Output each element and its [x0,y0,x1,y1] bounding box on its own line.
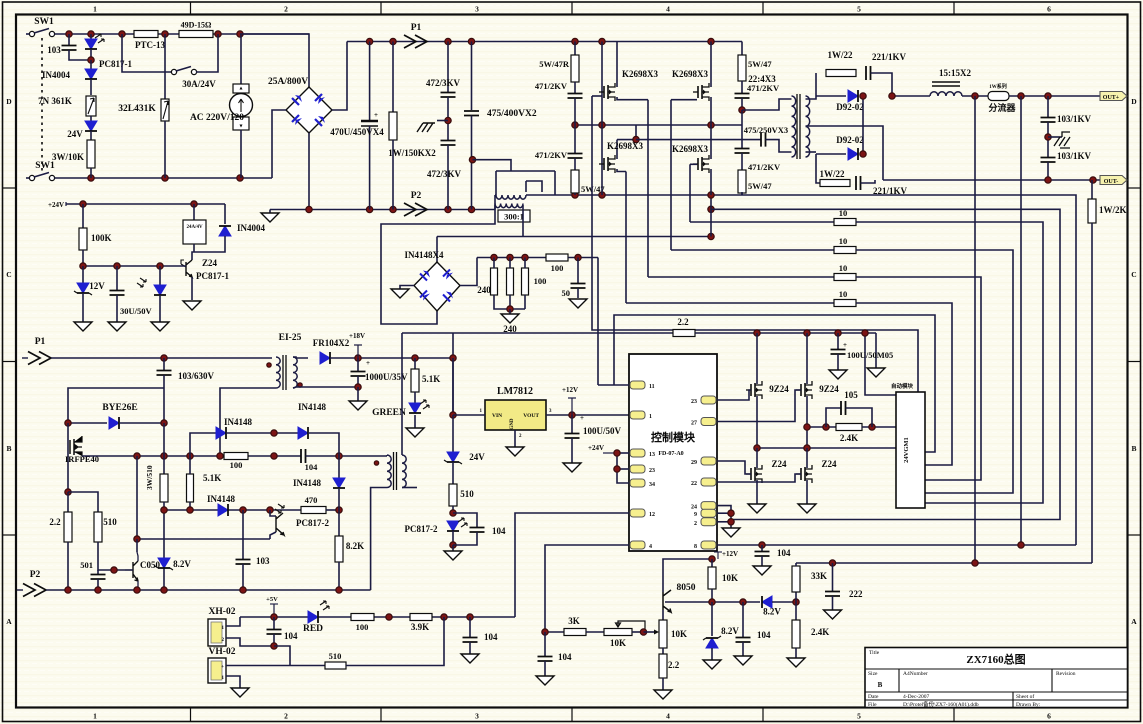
wire cap to VH row [274,646,290,666]
svg-text:8.2K: 8.2K [346,541,364,551]
wire mid rail spur [617,125,636,140]
svg-text:100: 100 [356,622,369,632]
svg-text:Revision: Revision [1056,671,1076,677]
resistor 5.1K chopper [187,474,194,502]
capacitor 471/2KV snubber upper-right [741,81,743,93]
capacitor 471/2KV snubber lower-right [741,110,743,148]
wire 18V to LM7812 [452,358,454,415]
capacitor 104 series row456 [301,449,306,463]
svg-text:2.4K: 2.4K [840,433,858,443]
capacitor 103/630V [163,358,165,370]
svg-text:221/1KV: 221/1KV [872,52,907,62]
resistor 10 B [671,249,834,251]
svg-text:100: 100 [551,263,564,273]
svg-text:1: 1 [93,5,97,14]
wire OUT+ rail to terminal [1009,95,1100,97]
svg-text:自动模块: 自动模块 [891,382,914,390]
wire totem output row [757,447,896,449]
svg-text:OUT-: OUT- [1104,179,1118,185]
svg-text:2: 2 [694,521,697,527]
resistor 510 feedback [290,665,325,667]
zone tick marks top [190,2,192,15]
svg-text:File: File [868,702,877,708]
svg-text:Sheet of: Sheet of [1016,693,1034,700]
svg-text:510: 510 [460,489,474,499]
relay contact 30A/24V [122,34,171,72]
switch SW1 lower [29,175,34,180]
resistor 3W/510 [163,423,165,474]
wire gate bus D [625,172,627,304]
ground 222 cap [824,610,842,619]
wire feedback loop G [711,209,1060,519]
svg-text:IN4148X4: IN4148X4 [404,250,444,260]
capacitor 104 on LED row [469,617,471,637]
wire module pin8 row [717,544,1076,546]
transistor Z24 second [806,448,808,468]
svg-text:104: 104 [492,526,506,536]
resistor 1W/22 bottom snubber [816,154,820,183]
wire CT secondary right lead [522,205,524,237]
ground gate bus end [875,333,877,368]
svg-text:12V: 12V [89,281,105,291]
wire VH-02 pin2 [226,676,240,688]
svg-text:9: 9 [694,512,697,518]
svg-text:LM7812: LM7812 [497,386,533,397]
svg-text:D:\Protel备份\ZX7-160(A01).ddb: D:\Protel备份\ZX7-160(A01).ddb [903,700,979,708]
pulse transformer driver [387,455,391,488]
svg-text:470: 470 [305,495,318,505]
svg-text:Z24: Z24 [771,459,787,469]
ground 100U cap [563,463,581,472]
svg-text:D: D [1131,97,1137,106]
svg-text:2: 2 [284,5,288,14]
svg-text:IN4148: IN4148 [298,402,327,412]
ground 12V zener [74,322,92,331]
potentiometer 10K [604,629,632,636]
wire bridge left to AC bottom [272,110,286,178]
wire module pin23 to gate [717,390,751,400]
svg-text:104: 104 [558,652,572,662]
svg-text:24V: 24V [67,129,83,139]
wire 8050 emitter chain [662,610,664,620]
resistor 10K emitter [659,620,667,648]
svg-text:12: 12 [649,512,655,518]
resistor 10 A [690,221,834,223]
svg-text:P2: P2 [30,570,41,580]
svg-text:分流器: 分流器 [988,102,1016,113]
wire Q4 gate feed [690,163,697,165]
ground 104 LED row [461,654,479,663]
node 475 cap branch [469,157,475,163]
current transformer 300:1 secondary winding [495,204,523,208]
transistor 8050 [663,590,671,612]
svg-text:10: 10 [839,208,848,218]
diode IN4148 vertical [338,456,340,478]
svg-text:1: 1 [649,414,652,420]
svg-text:RED: RED [303,624,323,634]
resistor 100 LED [351,614,374,621]
capacitor 104 connector [273,617,275,629]
resistor 5W/47 snubber bottom-left [574,158,576,170]
wire 1W/2K to divider [1091,223,1093,563]
svg-text:A4Number: A4Number [903,671,928,677]
ground LM7812 [514,430,516,447]
svg-text:5.1K: 5.1K [203,473,221,483]
svg-text:Date: Date [868,694,879,700]
svg-text:24: 24 [691,505,697,511]
wire Q2 gate feed [671,99,697,101]
svg-text:PC817-2: PC817-2 [296,518,329,528]
wire CT rectifier bus [437,236,711,238]
svg-text:IN4004: IN4004 [42,70,71,80]
wire pot to emitter resistor [644,631,656,633]
svg-text:XH-02: XH-02 [209,607,236,617]
svg-text:1W/22: 1W/22 [819,169,845,179]
capacitor 475/400VX2 [471,42,473,111]
svg-text:30U/50V: 30U/50V [120,306,153,316]
svg-text:Size: Size [868,671,878,677]
resistor 5W/47 snubber top-right [741,42,743,56]
wire bridge right to DC+ rail [332,42,347,111]
svg-text:2.2: 2.2 [49,517,61,527]
wire divider top row [796,562,1092,564]
svg-text:Drawn By:: Drawn By: [1016,702,1041,708]
ground 8050 emitter [654,690,672,699]
wire H-bridge bottom rail right [741,192,743,195]
svg-text:471/2KV: 471/2KV [535,81,568,91]
terminal OUT+ [1100,92,1127,101]
resistor 2.4K drive [807,426,836,428]
wire gate bus F [592,95,602,97]
wire OUT+ rail [892,95,930,97]
transistor IRFPE40 [67,423,69,492]
current transformer 300:1 secondary loop [473,160,512,171]
earth at 472 caps midpoint [437,120,448,122]
node top rail junctions [66,31,72,37]
capacitor 103 line filter [68,34,70,45]
diode IN4148 row4 [218,504,228,516]
wire LM7812 input [453,414,485,416]
resistor 49D-15 [179,31,213,38]
svg-text:10K: 10K [722,573,738,583]
transistor PC817-1 output with zener Z24 [192,252,194,260]
ground VH-02 [231,688,249,697]
title block [865,648,1128,708]
diode IN4004 flyback [224,204,226,224]
capacitor 103 feedback [242,510,244,559]
ground 104 pot [536,676,554,685]
wire DC- jog to H-bridge rail [494,195,496,210]
resistor 5W/47R snubber top-left [574,42,576,56]
svg-text:471/2KV: 471/2KV [748,162,781,172]
ground divider [787,658,805,667]
svg-text:5W/47: 5W/47 [748,59,772,69]
node H-bridge rails [572,38,578,44]
ground 104 comparator [734,656,752,665]
ground 100U 50M05 [829,370,847,379]
svg-text:PC817-1: PC817-1 [99,59,132,69]
ground CT filter [569,299,587,308]
wire driver secondary top to 2.2 bus [401,333,403,455]
svg-text:10K: 10K [610,638,626,648]
diode 8.2V signal [762,596,772,608]
svg-text:K2698X3: K2698X3 [622,69,659,79]
svg-text:K2698X3: K2698X3 [672,144,709,154]
svg-text:IN4148: IN4148 [293,478,322,488]
svg-text:100U/50M05: 100U/50M05 [847,350,893,360]
svg-text:30A/24V: 30A/24V [182,79,216,89]
svg-text:5.1K: 5.1K [422,374,440,384]
wire sense E from module pin 11 [614,315,935,452]
optocoupler PC817-1 sense LED [159,266,161,286]
svg-text:PTC-13: PTC-13 [135,40,165,50]
svg-text:29: 29 [691,460,697,466]
svg-text:104: 104 [484,632,498,642]
capacitor 104 on pin8 row [761,545,763,551]
svg-text:B: B [1131,444,1136,453]
zener diode 24V [90,116,92,121]
svg-text:10K: 10K [671,629,687,639]
capacitor 222 [832,563,834,591]
resistor 8.2K [338,510,340,536]
wire rectifier cathode bus [862,96,863,154]
svg-text:8: 8 [694,544,697,550]
resistor 1W/150KX2 [392,42,394,113]
wire opto emitter row [137,538,270,540]
resistor 2.2 emitter [662,648,664,654]
IC control module [629,354,717,551]
wire 103 cap tap [68,388,164,423]
svg-text:P1: P1 [411,23,422,33]
resistor 1W/22 top snubber [826,70,856,77]
svg-text:6: 6 [1047,5,1051,14]
svg-text:5W/47R: 5W/47R [539,59,570,69]
capacitor 1000U/35V [357,358,359,371]
capacitor 103/1KV upper [1047,96,1049,117]
ground resistor network [509,309,511,314]
wire module pin22 to gate [717,474,801,482]
varistor 32L431K [164,34,166,99]
resistor 100 CT filter [546,254,568,261]
svg-text:240: 240 [477,285,491,295]
ground 8.2V zener [703,660,721,669]
wire module pin27 to gate [717,390,801,422]
wire P2 rail bottom [17,589,23,591]
svg-text:3: 3 [475,5,479,14]
svg-text:IN4004: IN4004 [237,223,266,233]
svg-text:104: 104 [305,462,319,472]
svg-text:300:1: 300:1 [504,212,524,222]
svg-text:+: + [843,341,847,349]
svg-text:501: 501 [80,560,93,570]
wire secondary center tap to OUT- rail [806,126,884,180]
svg-text:7N 361K: 7N 361K [38,96,72,106]
svg-text:GND: GND [510,418,515,430]
wire gate supply to power module [865,333,896,395]
resistor 5W/47 snubber bottom-right [741,153,743,170]
resistor PTC-13 [134,31,158,38]
svg-text:103/1KV: 103/1KV [1057,114,1092,124]
svg-text:32L431K: 32L431K [118,104,156,114]
svg-text:K2698X3: K2698X3 [607,141,644,151]
svg-text:34: 34 [649,482,655,488]
wire secondary top lead [806,73,817,99]
resistor 2.2 [673,330,695,337]
wire gate bus A [689,164,691,222]
mechanical link dotted [41,38,43,174]
capacitor 104 pot [544,632,546,656]
wire pot row [545,631,564,633]
capacitor 100U/50M05 [837,333,839,349]
diode IN4004 [90,60,92,69]
wire XH-02 pin2 [226,638,274,646]
svg-text:4: 4 [666,5,670,14]
svg-text:5W/47: 5W/47 [748,181,772,191]
ground GREEN LED [406,428,424,437]
svg-text:100: 100 [534,276,547,286]
svg-text:D92-02: D92-02 [836,135,864,145]
svg-text:P2: P2 [411,191,422,201]
capacitor 103/1KV lower [1041,158,1056,163]
svg-text:103/1KV: 103/1KV [1057,151,1092,161]
current transformer 300:1 primary winding [496,195,526,199]
inductor 15:15X2 [930,92,962,96]
svg-text:+: + [580,414,584,422]
svg-text:49D-15Ω: 49D-15Ω [181,21,212,30]
wire row 510 [164,509,301,511]
wire +24V to pins 13 23 34 [617,452,629,454]
svg-text:+18V: +18V [349,332,365,340]
svg-text:510: 510 [329,651,342,661]
wire comparator row [665,601,760,603]
svg-text:+: + [366,359,370,367]
wire module pin29 to gate [717,461,751,474]
svg-text:+12V: +12V [722,550,738,558]
ground module pins [722,528,740,537]
wire module pin4 down [545,545,629,632]
wire 2.2 gate drive bus [402,332,673,334]
resistor 3.9K [410,614,432,621]
svg-text:FD-07-A0: FD-07-A0 [658,451,683,457]
svg-text:10: 10 [839,263,848,273]
svg-text:控制模块: 控制模块 [651,430,696,444]
svg-text:11: 11 [649,384,655,390]
wire bridge bottom to DC- rail [308,133,310,210]
wire XH-02 pin1 [226,617,240,626]
module pins left [630,381,645,389]
svg-text:C050: C050 [140,560,160,570]
zener diode 24V aux [452,415,454,452]
zone tick marks right [1128,187,1141,189]
svg-text:GREEN: GREEN [372,408,406,418]
wire gate bus B [670,100,672,250]
wire DC+ top rail [347,41,742,43]
svg-text:471/2KV: 471/2KV [535,150,568,160]
svg-text:+: + [374,111,378,119]
svg-text:3K: 3K [568,616,580,626]
svg-text:6: 6 [1047,712,1051,721]
regulator LM7812 [485,400,546,430]
svg-text:103: 103 [47,45,61,55]
wire 8050 collector [663,559,712,592]
svg-text:33K: 33K [811,571,827,581]
capacitor 30U/50V [116,266,118,290]
svg-text:A: A [6,617,12,626]
svg-text:VOUT: VOUT [523,413,539,419]
svg-text:50: 50 [562,288,571,298]
transistor 9Z24 second [806,333,808,384]
resistor 10 D [626,302,834,304]
capacitor 104 opto [453,513,477,527]
zone tick marks left [3,187,17,189]
resistor 100 gate [224,453,248,460]
earth output filter [1048,136,1062,138]
resistor 510 opto drive [452,462,454,484]
wire EI-25 secondary top [293,357,308,358]
svg-text:ZX7160总图: ZX7160总图 [966,652,1025,666]
svg-text:105: 105 [844,390,858,400]
wire H-bridge mid rail [575,124,742,126]
node DC rail junctions [366,38,372,44]
svg-text:D: D [6,97,12,106]
svg-text:Z24: Z24 [202,258,218,268]
transistor K2698X3 Q1 [604,85,608,99]
capacitor 472/3KV lower [441,141,456,146]
resistor network 240 x3 [477,257,546,259]
diode FR104X2 [320,352,330,364]
transistor K2698X3 Q2 [698,85,702,99]
svg-text:5: 5 [857,712,861,721]
svg-text:103/630V: 103/630V [178,371,215,381]
svg-text:B: B [878,681,883,689]
svg-text:510: 510 [103,517,117,527]
svg-text:1W/2K: 1W/2K [1099,205,1127,215]
svg-text:23: 23 [649,468,655,474]
svg-text:A: A [1131,617,1137,626]
svg-text:104: 104 [757,630,771,640]
wire rectified 18V [330,357,453,359]
resistor 470 [301,507,326,514]
svg-text:471/2KV: 471/2KV [747,83,780,93]
wire OUT+ sense [974,96,976,563]
LED RED [308,611,318,623]
wire CT secondary left lead to bridge bottom [381,205,495,324]
svg-text:2: 2 [284,712,288,721]
svg-text:C: C [6,270,11,279]
diode IN4148 row2 first [216,427,226,439]
svg-text:K2698X3: K2698X3 [672,69,709,79]
wire EI-25 secondary bottom [293,387,358,388]
svg-text:BYE26E: BYE26E [102,403,137,413]
wire P2 rail to driver transformer [371,488,387,591]
ground Z24 first [748,504,766,513]
capacitor 501 CT filter [568,257,598,259]
svg-text:8.2V: 8.2V [173,559,191,569]
wire row 433 [190,433,216,456]
resistor 1W/2K [1091,180,1093,199]
wire AC bottom rail [55,177,273,179]
diode IN4148 row2 second [298,427,308,439]
svg-text:25A/800V: 25A/800V [268,77,308,87]
relay coil 24A/4V [193,204,195,220]
resistor 10K collector [711,559,713,567]
capacitor 104 comparator [742,602,744,637]
svg-text:PC817-1: PC817-1 [196,271,229,281]
resistor 3W/10K [87,140,95,168]
svg-text:472/3KV: 472/3KV [426,78,461,88]
svg-text:+24V: +24V [588,444,604,452]
transistor 9Z24 first [756,333,758,384]
